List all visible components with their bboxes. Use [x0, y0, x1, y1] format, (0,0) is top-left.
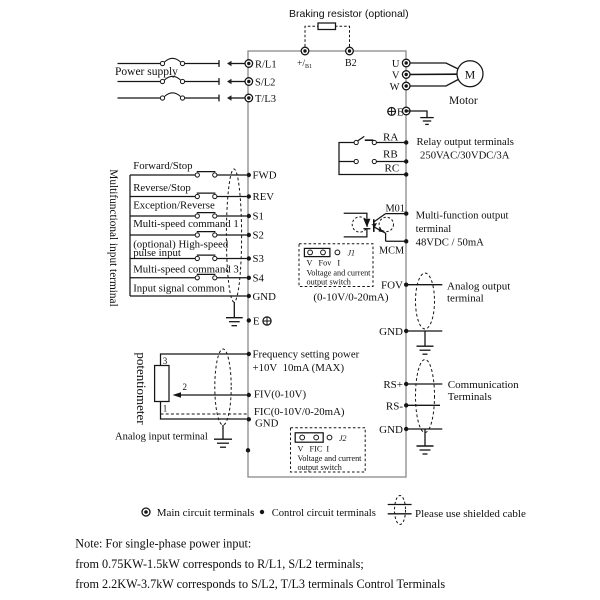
- ground input shield: [226, 302, 243, 326]
- power phase T: wire: [118, 97, 246, 99]
- svg-text:Braking resistor (optional): Braking resistor (optional): [289, 8, 409, 20]
- wire M01: [386, 213, 406, 215]
- svg-text:RS+: RS+: [383, 379, 403, 391]
- relay common bus wire: [339, 143, 406, 175]
- svg-text:250VAC/30VDC/3A: 250VAC/30VDC/3A: [420, 150, 510, 162]
- svg-text:Voltage and current: Voltage and current: [307, 269, 372, 278]
- svg-text:Please use shielded cable: Please use shielded cable: [415, 508, 526, 520]
- breaker QF phase R: [160, 58, 184, 65]
- svg-text:Voltage and current: Voltage and current: [298, 454, 363, 463]
- input row S1: [130, 213, 247, 216]
- svg-text:Forward/Stop: Forward/Stop: [133, 160, 192, 172]
- terminal E top: [402, 107, 410, 115]
- protective earth symbol left: [263, 317, 271, 325]
- svg-text:S1: S1: [253, 211, 264, 223]
- shield lens RS: [416, 360, 435, 433]
- potentiometer RP body: [155, 366, 169, 402]
- terminal RC: [404, 172, 408, 176]
- wire E to ground: [406, 111, 427, 118]
- input row REV: [130, 193, 247, 196]
- protective earth symbol top: [388, 108, 396, 116]
- terminal R/L1: [245, 60, 253, 68]
- svg-text:M: M: [465, 67, 476, 81]
- svg-text:terminal: terminal: [447, 293, 484, 305]
- legend control circuit terminal: [260, 510, 264, 514]
- shield lens analog input: [215, 349, 231, 425]
- wire FIC dashed: [161, 413, 248, 415]
- wire +10V to pot pin3: [161, 354, 249, 366]
- svg-text:R/L1: R/L1: [255, 60, 277, 71]
- svg-text:Multifunctional input terminal: Multifunctional input terminal: [107, 169, 119, 306]
- terminal B2: [346, 47, 354, 55]
- power phase S: wire: [118, 81, 246, 83]
- terminal RS-: [404, 403, 408, 407]
- svg-text:V Fov I: V Fov I: [307, 259, 341, 268]
- wire GND comm: [406, 428, 442, 430]
- breaker QF phase S: [160, 76, 184, 83]
- svg-text:RB: RB: [383, 149, 398, 161]
- wire MCM: [386, 240, 406, 242]
- braking resistor R: [318, 23, 336, 30]
- svg-text:Reverse/Stop: Reverse/Stop: [133, 182, 191, 194]
- svg-text:S3: S3: [253, 253, 264, 265]
- terminal U: [402, 59, 410, 67]
- ground analog output: [417, 331, 434, 354]
- svg-text:REV: REV: [253, 191, 275, 203]
- svg-text:Motor: Motor: [449, 95, 478, 107]
- svg-text:2: 2: [183, 382, 188, 392]
- svg-text:FOV: FOV: [381, 280, 403, 292]
- input row FWD: [130, 172, 247, 175]
- svg-text:Terminals: Terminals: [448, 391, 492, 403]
- optocoupler LED dashed circle: [352, 217, 367, 232]
- svg-text:V: V: [392, 71, 400, 82]
- ground comm: [417, 429, 434, 454]
- svg-text:1: 1: [163, 404, 168, 414]
- terminal RA: [404, 140, 408, 144]
- svg-text:Multi-function output: Multi-function output: [416, 210, 509, 222]
- input row S2: [130, 232, 247, 235]
- svg-text:RS-: RS-: [386, 400, 403, 412]
- svg-text:RA: RA: [383, 132, 398, 144]
- wire W to motor: [406, 80, 458, 87]
- svg-text:S4: S4: [253, 273, 265, 285]
- terminal S/L2: [245, 78, 253, 86]
- svg-text:RC: RC: [385, 163, 400, 175]
- terminal W: [402, 82, 410, 90]
- svg-text:W: W: [390, 82, 400, 93]
- terminal V: [402, 71, 410, 79]
- legend shield symbol: [388, 496, 412, 525]
- svg-text:Multi-speed command 1: Multi-speed command 1: [133, 218, 239, 230]
- svg-text:Frequency setting power: Frequency setting power: [253, 349, 360, 361]
- svg-text:Input signal common: Input signal common: [133, 283, 225, 295]
- svg-text:J1: J1: [348, 249, 356, 258]
- input row GND: [130, 295, 247, 297]
- terminal RS+: [404, 382, 408, 386]
- svg-text:Note: For single-phase power i: Note: For single-phase power input:: [75, 537, 251, 551]
- svg-text:FIV(0-10V): FIV(0-10V): [254, 389, 307, 401]
- svg-text:Multi-speed command 3: Multi-speed command 3: [133, 263, 239, 275]
- shield lens inputs: [226, 169, 241, 302]
- terminal MCM: [404, 239, 408, 243]
- disconnect contact phase R: [219, 60, 232, 67]
- terminal FIV: [247, 393, 251, 397]
- breaker QF phase T: [160, 93, 184, 100]
- phototransistor Q1: [374, 214, 386, 242]
- terminal T/L3: [245, 94, 253, 102]
- terminal GND pot: [247, 417, 251, 421]
- svg-text:3: 3: [163, 356, 168, 366]
- terminal +10V: [247, 352, 251, 356]
- phototransistor dashed circle: [379, 217, 393, 231]
- shield lens FOV/GND: [416, 273, 435, 329]
- svg-text:48VDC / 50mA: 48VDC / 50mA: [416, 237, 485, 249]
- inverter main box: [248, 51, 406, 477]
- dashed leads to braking resistor: [305, 26, 350, 46]
- optocoupler LED: [363, 219, 370, 229]
- terminal FOV: [404, 283, 408, 287]
- wiper arrow pin2: [173, 392, 247, 398]
- svg-text:GND: GND: [253, 291, 277, 303]
- svg-text:S/L2: S/L2: [255, 78, 275, 89]
- svg-text:M01: M01: [386, 204, 405, 215]
- motor M: [457, 61, 483, 87]
- disconnect contact phase S: [219, 78, 232, 85]
- svg-text:potentiometer: potentiometer: [134, 352, 149, 425]
- wire FOV: [406, 284, 442, 286]
- terminal M01: [404, 211, 408, 215]
- optocoupler light arrow: [371, 223, 377, 227]
- svg-text:FWD: FWD: [253, 170, 277, 182]
- svg-text:Analog input terminal: Analog input terminal: [115, 432, 208, 443]
- svg-text:output switch: output switch: [298, 463, 342, 472]
- terminal E left: [247, 318, 251, 322]
- svg-text:Main circuit terminals: Main circuit terminals: [157, 507, 255, 519]
- svg-text:E: E: [253, 315, 260, 327]
- wire GND analog: [406, 330, 442, 332]
- svg-text:Relay output terminals: Relay output terminals: [417, 136, 514, 148]
- node unused left: [246, 448, 250, 452]
- terminal GND analog: [404, 329, 408, 333]
- svg-text:+10V 10mA (MAX): +10V 10mA (MAX): [253, 362, 345, 374]
- wire RS-: [406, 404, 440, 406]
- svg-text:Power supply: Power supply: [115, 66, 178, 78]
- svg-text:terminal: terminal: [416, 223, 452, 235]
- svg-text:GND: GND: [379, 326, 403, 338]
- terminal RB: [404, 159, 408, 163]
- legend main circuit terminal: [142, 508, 150, 516]
- svg-text:T/L3: T/L3: [255, 94, 276, 105]
- ground top right: [420, 118, 433, 125]
- svg-text:S2: S2: [253, 230, 264, 242]
- wire RS+: [406, 383, 442, 385]
- terminal GND comm: [404, 427, 408, 431]
- input row S4: [130, 274, 247, 277]
- svg-text:MCM: MCM: [379, 246, 404, 257]
- svg-text:pulse input: pulse input: [133, 247, 181, 259]
- wire U to motor: [406, 63, 458, 69]
- optocoupler U1: input leads: [344, 213, 367, 237]
- svg-text:J2: J2: [339, 434, 347, 443]
- svg-text:from 2.2KW-3.7kW corresponds t: from 2.2KW-3.7kW corresponds to S/L2, T/…: [75, 577, 445, 591]
- svg-text:Analog output: Analog output: [447, 281, 510, 293]
- svg-text:Communication: Communication: [448, 379, 519, 391]
- jumper block J1: [299, 244, 373, 287]
- relay contact RA: [354, 136, 406, 144]
- svg-text:(0-10V/0-20mA): (0-10V/0-20mA): [313, 292, 388, 304]
- multifunctional input table left bus: [129, 175, 131, 296]
- input row S3: [130, 255, 247, 258]
- svg-text:U: U: [392, 59, 400, 70]
- wire V to motor: [406, 73, 457, 75]
- power phase R: wire: [118, 63, 246, 65]
- svg-text:FIC(0-10V/0-20mA): FIC(0-10V/0-20mA): [254, 406, 345, 418]
- svg-text:GND: GND: [379, 424, 403, 436]
- terminal +/B1: [301, 47, 309, 55]
- svg-text:Exception/Reverse: Exception/Reverse: [133, 200, 215, 212]
- disconnect contact phase T: [219, 95, 232, 102]
- svg-text:Control circuit terminals: Control circuit terminals: [272, 508, 376, 519]
- svg-text:B2: B2: [345, 58, 357, 69]
- svg-text:GND: GND: [255, 418, 279, 430]
- jumper block J2: [291, 428, 366, 472]
- svg-text:output switch: output switch: [307, 278, 351, 287]
- ground analog input shield: [214, 425, 232, 447]
- svg-text:from 0.75KW-1.5kW corresponds: from 0.75KW-1.5kW corresponds to R/L1, S…: [75, 557, 364, 571]
- svg-text:V FIC I: V FIC I: [298, 445, 330, 454]
- pot pin1 wire to GND: [161, 402, 247, 420]
- relay contact RB: [339, 159, 406, 163]
